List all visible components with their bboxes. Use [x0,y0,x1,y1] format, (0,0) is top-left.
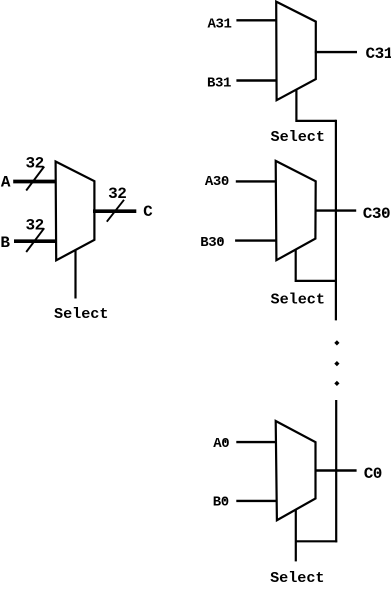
wire select0 junction to chain [296,540,337,542]
wire select31 to chain [296,90,336,121]
svg-text:C31: C31 [366,45,391,63]
mux body (left 2:1 mux trapezoid) [56,162,95,261]
zero dot C0 [377,471,379,474]
zero dot C30 [384,211,386,214]
wire A31 [236,19,277,21]
svg-text:B0: B0 [213,495,229,511]
svg-text:B31: B31 [207,75,231,91]
svg-text:Select: Select [271,290,325,308]
wire B0 [236,500,276,502]
svg-text:A0: A0 [213,436,229,452]
wire A0 [236,441,276,443]
bus-width slash C [107,200,124,222]
zero dot A0 [224,440,226,443]
wire C bus (output) [93,209,136,213]
wire C0 (output) [315,469,357,471]
svg-text:B30: B30 [200,235,224,251]
svg-text:A31: A31 [208,16,232,32]
wire select chain vertical [335,120,337,321]
svg-text:B: B [0,234,10,252]
svg-text:C30: C30 [363,205,390,223]
svg-text:C: C [143,203,153,221]
wire B31 [236,79,277,81]
svg-text:C0: C0 [364,465,382,483]
svg-text:A: A [1,173,11,191]
mux body U30 [276,161,316,260]
svg-text:32: 32 [108,185,126,203]
wire C31 (output) [315,51,357,53]
wire B bus [14,239,57,243]
wire B30 [235,239,276,241]
bus-width slash A [26,167,44,191]
ellipsis dot 3 [334,381,339,386]
svg-text:A30: A30 [205,174,229,190]
zero dot B0 [224,499,226,502]
wire select0 input stub [295,510,297,562]
zero dot A30 [222,178,224,181]
svg-text:32: 32 [26,216,44,234]
mux body U31 [276,2,316,101]
wire A bus [13,180,56,184]
wire Select stub (left mux) [74,250,76,298]
svg-text:Select: Select [271,128,325,146]
zero dot B30 [220,239,222,242]
wire C30 (output) [315,209,356,211]
ellipsis dot 2 [334,361,339,366]
mux body U0 [276,421,316,520]
bus-width slash B [26,228,44,252]
svg-text:Select: Select [54,305,108,323]
ellipsis dot 1 [334,340,339,345]
wire select30 to chain [296,250,337,281]
wire A30 [236,180,277,182]
svg-text:Select: Select [270,569,324,587]
svg-text:32: 32 [26,155,44,173]
wire select chain vertical (lower) [335,400,337,542]
